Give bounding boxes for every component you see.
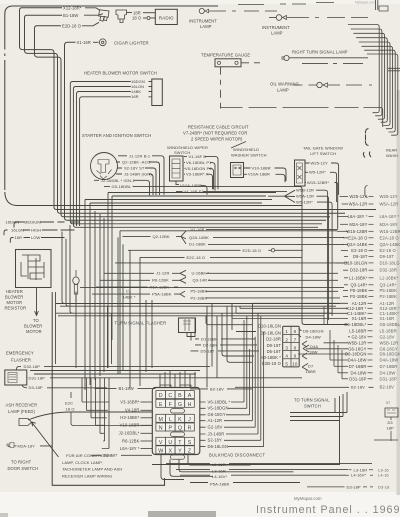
svg-text:B: B [178, 393, 182, 399]
svg-text:R6A-12BK: R6A-12BK [150, 285, 170, 290]
svg-text:U: U [168, 440, 172, 446]
wire instrument lamp 2 dashdot [287, 17, 368, 19]
svg-text:D2-18R: D2-18R [266, 336, 281, 341]
wire feed L6A-18Y * [102, 378, 109, 449]
bulkhead cell A [185, 391, 195, 399]
wire L3-16R [176, 469, 348, 471]
wire grid top 7 [194, 372, 196, 388]
wire X12 lead [85, 8, 100, 11]
wire lead1 P5-18BK [343, 290, 348, 292]
wire lead1 W5A-12R [342, 203, 348, 205]
svg-text:FLASHER: FLASHER [11, 357, 31, 362]
connector plug 1 [99, 10, 109, 21]
wire bd J3-14BR [200, 313, 258, 434]
svg-text:TAIL GATE WINDOW: TAIL GATE WINDOW [303, 146, 343, 151]
svg-text:D4-18W: D4-18W [306, 334, 321, 339]
bulkhead cell Z [185, 446, 195, 454]
svg-text:L4-16V*: L4-16V* [351, 473, 366, 478]
svg-text:LAMP: LAMP [277, 88, 289, 93]
svg-text:Q2A-14BK: Q2A-14BK [347, 242, 368, 247]
svg-text:W5A-12R: W5A-12R [349, 202, 368, 207]
wire E2D lead [82, 22, 99, 26]
svg-text:RESISTOR: RESISTOR [5, 306, 27, 311]
svg-text:W25-12Y: W25-12Y [380, 194, 398, 199]
wire D1 [195, 338, 255, 340]
svg-text:P2-18BK: P2-18BK [191, 295, 208, 300]
wire grid top 2 [169, 370, 171, 388]
wire grid top 0 [159, 374, 161, 388]
svg-text:B2-18V: B2-18V [351, 385, 365, 390]
svg-text:18P: 18P [387, 426, 395, 431]
wire lead1 D9-18T [344, 255, 348, 257]
wire bd G2-18V [200, 337, 255, 427]
wire lead2 D8-18DGN [298, 353, 348, 355]
wire bd D6-18LGN [200, 332, 264, 447]
svg-text:Q3-14R*: Q3-14R* [380, 282, 397, 287]
wire Q2-12BK [116, 162, 160, 195]
svg-text:B2-18V: B2-18V [210, 386, 224, 391]
wire note pointer [231, 142, 246, 149]
svg-text:H: H [188, 402, 192, 408]
wire D32 [17, 367, 211, 371]
svg-text:V4-18R F1: V4-18R F1 [184, 189, 205, 194]
svg-text:BLOWER: BLOWER [24, 323, 42, 328]
svg-text:Q2A-14BK: Q2A-14BK [189, 235, 209, 240]
svg-text:A1-12R: A1-12R [208, 418, 223, 423]
svg-text:W25-12Y: W25-12Y [311, 160, 329, 165]
wire J1 branch [104, 270, 186, 276]
wire 16LGN [73, 87, 318, 228]
wire brace 3 [365, 186, 368, 198]
svg-text:V1-16F B: V1-16F B [189, 154, 207, 159]
wire edge conn [374, 417, 398, 441]
wire X12-18R* [20, 8, 377, 210]
wire oval feed down [75, 292, 77, 369]
wire brace 1 [365, 129, 368, 146]
wire lead1 L1-16BK* [344, 277, 348, 279]
wire P5A branch [92, 291, 185, 297]
wire top right pair [376, 0, 378, 10]
wire dash2 L5-18BR [368, 330, 373, 332]
wire dash M2A-18Y [369, 223, 374, 225]
wire dash2 X12-18R * [368, 307, 373, 309]
wire lead1 L6A-18Y * [337, 216, 348, 218]
svg-text:BLOWER: BLOWER [5, 295, 23, 300]
wire drop mid 4 [231, 304, 233, 331]
svg-text:D4-18W: D4-18W [380, 370, 396, 375]
svg-text:TEMPERATURE GAUGE: TEMPERATURE GAUGE [201, 53, 250, 58]
svg-text:G2-18V: G2-18V [208, 425, 223, 430]
wire to blower motor arrow [35, 288, 39, 316]
wire left drop 3 [70, 225, 73, 313]
wire S2-18Y [117, 168, 156, 195]
wire bus 8 [80, 287, 344, 289]
bulkhead connector grid [152, 388, 200, 455]
emergency flasher inner [8, 373, 17, 383]
wire temp gauge down dashed [220, 67, 222, 109]
wire temp gauge right [241, 62, 260, 64]
wire tts horizontals [290, 413, 347, 421]
svg-text:G2-18V: G2-18V [351, 334, 366, 339]
wire V4-18R to grid [141, 409, 153, 411]
wire lead2 C1-14BK* [236, 312, 348, 314]
svg-text:D10-18LGN: D10-18LGN [258, 324, 281, 329]
svg-text:V5-18DGN: V5-18DGN [208, 406, 229, 411]
wire L4-16V [180, 474, 346, 476]
svg-text:W25-12Y: W25-12Y [349, 194, 367, 199]
wire bd V5-18DGN [200, 316, 247, 408]
wire drop 12 [151, 300, 153, 368]
svg-text:M: M [158, 417, 162, 423]
svg-text:E2A-18 O: E2A-18 O [348, 235, 368, 240]
wire dash2 A1-12R [368, 302, 373, 304]
door jamb connector [7, 443, 14, 448]
wire bus y107 [221, 108, 383, 128]
wire J3-14BR [116, 174, 153, 195]
svg-text:L6A-18Y *: L6A-18Y * [120, 446, 140, 451]
wire bundle stub 2 [375, 114, 382, 116]
svg-text:L6A-18Y *: L6A-18Y * [348, 214, 368, 219]
wire D31 [27, 377, 302, 379]
wire E2D-18 O [35, 26, 331, 217]
wire midband pair [56, 304, 340, 307]
svg-text:14BK: 14BK [131, 89, 141, 94]
wire grid top 1 [164, 372, 166, 388]
wire right bundle 7 [364, 50, 395, 130]
svg-text:V3-16BR*: V3-16BR* [120, 399, 140, 404]
wire conn feed corner [206, 316, 209, 325]
wire E2B feed [227, 306, 252, 362]
wire B3 [235, 386, 374, 388]
connector plug left [73, 270, 79, 302]
svg-text:D4A-18W: D4A-18W [380, 358, 399, 363]
wire tail gate right drops [316, 190, 332, 325]
svg-text:G5-18DBL *: G5-18DBL * [112, 184, 135, 189]
svg-text:V7-24BR* (NOT REQUIRED FOR: V7-24BR* (NOT REQUIRED FOR [183, 131, 247, 136]
wire lead2 L5-18BR [347, 330, 349, 332]
bulkhead cell E [156, 399, 166, 407]
top edge wire mark [316, 2, 334, 4]
bulkhead cell Y [175, 446, 185, 454]
wire drop 11 [145, 300, 147, 372]
wire dash2 X1-16R [368, 318, 373, 320]
svg-text:REAR: REAR [386, 148, 397, 153]
wire bundle stub 1 [373, 111, 380, 113]
svg-text:P5A-18BK: P5A-18BK [210, 481, 230, 486]
wire B1-18W [25, 15, 346, 213]
svg-text:H3-18BK*: H3-18BK* [120, 415, 140, 420]
svg-text:L1-16BK*: L1-16BK* [380, 275, 399, 280]
wire H3 feed [222, 313, 254, 356]
wire bus 3 [85, 199, 272, 201]
wire bd V6-18DBL * [200, 320, 244, 402]
wire B2 low [190, 388, 253, 390]
wire conn feeds [209, 325, 257, 332]
svg-text:RECEIVER LAMP WIRING: RECEIVER LAMP WIRING [62, 474, 112, 479]
svg-text:V3-16BR* A: V3-16BR* A [186, 172, 209, 177]
wire dash2 D4-18W [368, 372, 373, 374]
emergency flasher box [5, 370, 27, 385]
wire 16R low [10, 238, 64, 243]
wire D3 r [307, 486, 373, 488]
svg-text:STARTER AND IGNITION SWITCH: STARTER AND IGNITION SWITCH [82, 133, 151, 138]
svg-text:7: 7 [294, 337, 297, 342]
wire lead2 G5-18DBL* [324, 324, 348, 326]
svg-text:W5B-12R: W5B-12R [348, 340, 367, 345]
wire right bundle 5 [359, 42, 390, 123]
svg-text:D3-18P: D3-18P [347, 484, 361, 489]
wire R6 branch [100, 277, 186, 283]
wire dash W25-12Y [369, 195, 374, 197]
svg-text:MyMopar.com: MyMopar.com [294, 496, 322, 501]
wire conn row 0 [283, 333, 300, 335]
wire bus 6 [120, 230, 337, 232]
wire lead2 X12-18R * [240, 307, 348, 309]
page border wire [5, 6, 218, 190]
svg-text:W15-12BR*: W15-12BR* [307, 180, 329, 185]
svg-text:D8-18DGN: D8-18DGN [345, 352, 367, 357]
wire 16LGN high [4, 230, 75, 235]
svg-text:S2-18Y: S2-18Y [208, 438, 223, 443]
svg-text:R6-12BK: R6-12BK [122, 438, 140, 443]
wire left drop 2 [66, 239, 69, 306]
svg-text:E2D-18 O: E2D-18 O [62, 23, 81, 28]
wire dash Q2A-14BK [369, 244, 374, 246]
svg-text:TO: TO [33, 318, 39, 323]
connector plug 2 [116, 10, 127, 23]
wire 16DGN medium [14, 222, 80, 228]
svg-text:X1-16R: X1-16R [352, 316, 367, 321]
svg-text:D3: D3 [388, 420, 393, 425]
wire drop mid 2 [211, 304, 213, 367]
svg-text:E2B-18 O: E2B-18 O [262, 361, 282, 366]
svg-text:Instrument Panel . . 1969: Instrument Panel . . 1969 B [256, 504, 400, 516]
svg-text:DOOR SWITCH: DOOR SWITCH [8, 466, 39, 471]
wire dash2 G6-18GY [368, 348, 373, 350]
wire right turn dash [302, 62, 368, 64]
wire J1-12R [118, 156, 164, 195]
svg-text:P5-18BK: P5-18BK [350, 288, 368, 293]
svg-text:Q3-14R*: Q3-14R* [351, 282, 368, 287]
bulkhead cell Q [175, 423, 185, 431]
wire bus 5 [16, 205, 302, 207]
wire rect left verts [108, 306, 112, 368]
svg-text:LIFT SWITCH: LIFT SWITCH [310, 151, 336, 156]
svg-text:INSTRUMENT: INSTRUMENT [189, 19, 217, 24]
svg-text:WASH: WASH [386, 153, 398, 158]
wire branch outs 2 [206, 273, 340, 298]
wire L4 r [346, 474, 373, 476]
top border wire dashes [238, 3, 306, 6]
wire bundle stub 3 [378, 117, 385, 119]
svg-text:R: R [188, 426, 192, 432]
wire V3-16BR* to grid [141, 401, 153, 403]
svg-text:RADIO: RADIO [159, 15, 174, 20]
svg-text:P: P [169, 426, 173, 432]
svg-text:Q2-12BK -ACC: Q2-12BK -ACC [122, 160, 151, 165]
svg-text:E2-18 O: E2-18 O [351, 248, 368, 253]
windshield washer switch box [231, 163, 244, 178]
wire lamp2 left [269, 17, 276, 19]
wire 16DGN [70, 82, 322, 224]
svg-text:D5-18T: D5-18T [201, 348, 215, 353]
svg-text:V6-18DBL P1: V6-18DBL P1 [186, 160, 212, 165]
svg-text:J1-12R: J1-12R [156, 271, 170, 276]
svg-text:K: K [178, 417, 182, 423]
svg-text:P5-18BK: P5-18BK [380, 288, 398, 293]
svg-text:HEATER: HEATER [6, 289, 23, 294]
svg-text:MyMopar.com: MyMopar.com [355, 1, 375, 5]
svg-text:D9-18T: D9-18T [353, 254, 368, 259]
wire V10A-18BR [176, 181, 207, 195]
svg-text:P5-18BK: P5-18BK [191, 289, 208, 294]
wire L3 r [349, 469, 374, 471]
wire dash2 D4A-18W [368, 359, 373, 361]
svg-text:D7: D7 [308, 363, 314, 368]
wire right bundle 6 [362, 46, 393, 126]
svg-text:L4-16: L4-16 [378, 473, 389, 478]
terminal circle E2D [271, 249, 274, 252]
svg-text:D7-18BR: D7-18BR [380, 364, 398, 369]
svg-text:E2C-18 O: E2C-18 O [187, 255, 206, 260]
svg-text:L4-16V*: L4-16V* [212, 474, 227, 479]
wire conn mid [290, 326, 292, 367]
svg-text:D4A-18W: D4A-18W [348, 358, 367, 363]
svg-text:P2-18BK: P2-18BK [380, 294, 398, 299]
svg-text:V: V [159, 440, 163, 446]
wire drop 13 [122, 244, 124, 370]
wire bus 1 [108, 192, 276, 194]
svg-text:X1-16R: X1-16R [77, 40, 91, 45]
wire V3-16BR [184, 174, 213, 189]
border bottom corner wire [5, 192, 16, 206]
svg-text:L: L [169, 417, 172, 423]
wire oil warning lamp right [328, 84, 372, 86]
bulkhead cell S [185, 437, 195, 445]
bulkhead cell J [185, 414, 195, 422]
bulkhead cell U [166, 437, 176, 445]
wire G5-18DBL [104, 187, 348, 325]
wire lead1 W25-12Y [340, 195, 348, 197]
wire feed V4-18R [87, 378, 108, 410]
wire feed V10-18BR [96, 378, 106, 425]
svg-text:Q2-12BK: Q2-12BK [153, 234, 170, 239]
temperature gauge box [215, 59, 241, 67]
bulkhead cell W [156, 446, 166, 454]
svg-text:X12-18R*: X12-18R* [63, 5, 82, 10]
wire drop 5 [103, 218, 105, 372]
wire right bundle 4 [356, 38, 387, 120]
wire D2 [195, 344, 257, 346]
svg-text:D32-18P: D32-18P [24, 364, 41, 369]
svg-text:X: X [169, 448, 173, 454]
wire lead1 E2A-18 O [343, 237, 348, 239]
svg-text:18 O: 18 O [66, 407, 75, 412]
wire V10A-18BR [244, 174, 286, 182]
wire grid bottom 2 [170, 459, 213, 476]
wire dash2 C1-14BK* [368, 312, 373, 314]
svg-text:2 SPEED WIPER MOTOR): 2 SPEED WIPER MOTOR) [191, 137, 243, 142]
wire col2 verts a [232, 306, 240, 318]
windshield wiper switch box [170, 156, 184, 181]
svg-text:W15-12BR: W15-12BR [380, 229, 400, 234]
temp gauge terminals [217, 61, 220, 64]
svg-text:FOR AIR CONDITIONER: FOR AIR CONDITIONER [66, 453, 113, 458]
svg-text:E: E [159, 402, 163, 408]
svg-text:D4A: D4A [310, 344, 318, 349]
wire rect bottoms [30, 371, 200, 375]
wire D4A D7 chevrons [302, 345, 309, 371]
svg-text:D9-18T: D9-18T [267, 343, 282, 348]
wire flasher out [187, 319, 195, 341]
wire lead2 D31-18P [342, 378, 348, 380]
svg-text:P2-18BK: P2-18BK [350, 294, 368, 299]
svg-text:J: J [188, 417, 191, 423]
wire right turn signal [289, 57, 368, 59]
svg-text:D32-18R: D32-18R [350, 268, 367, 273]
heater blower switch box [152, 79, 163, 106]
wire conn row 1 [283, 342, 300, 344]
wire grid top 5 [184, 370, 186, 388]
wire lead1 Q2A-14BK [343, 244, 348, 246]
svg-text:SWITCH: SWITCH [304, 404, 321, 409]
turn signal flasher box [179, 318, 196, 333]
radio box [155, 9, 177, 24]
svg-text:BULKHEAD DISCONNECT: BULKHEAD DISCONNECT [209, 452, 265, 457]
svg-text:1: 1 [285, 329, 288, 334]
svg-text:LAMP: LAMP [200, 24, 212, 29]
wire feed R6-12BK [103, 378, 105, 441]
wire col2 vert 3 [231, 306, 233, 319]
svg-text:18W: 18W [309, 349, 318, 354]
svg-text:D2-18R: D2-18R [203, 342, 217, 347]
wire J2-16DBL* to grid [141, 432, 153, 434]
wire lead2 D7-18BR [334, 365, 348, 367]
wire right bundle 3 [353, 33, 384, 117]
svg-text:9: 9 [294, 354, 297, 359]
right edge connector [385, 408, 398, 417]
wire D3 [22, 385, 107, 388]
wire H3-18BK* to grid [141, 417, 153, 419]
wire P5A-18BK [190, 482, 300, 484]
bulkhead key oval 1 [171, 409, 185, 413]
svg-text:D6-18LGN: D6-18LGN [208, 444, 229, 449]
wire brace 2 [363, 152, 371, 158]
wire grid bottom 3 [179, 459, 294, 472]
wire dash D10-18LGN [369, 262, 374, 264]
top right connector [379, 6, 388, 11]
heater blower motor resistor box [16, 250, 52, 288]
svg-text:G: G [178, 402, 182, 408]
wire drop 10 [139, 257, 141, 386]
instrument lamp 2 [276, 15, 282, 21]
wire bd A1-12R [200, 303, 252, 420]
wire lead2 W5B-12R [324, 342, 349, 344]
wire bus 4 [90, 202, 262, 204]
wire dash E2A-18 O [369, 237, 374, 239]
wire right bundle 2 [351, 29, 382, 114]
svg-text:C: C [168, 393, 172, 399]
svg-text:57: 57 [386, 401, 390, 405]
wire dash Q3-14R* [369, 284, 374, 286]
wire bundle stub 6 [386, 127, 393, 129]
wire e2c [71, 392, 152, 426]
wire lead2 G2-18V [348, 336, 350, 338]
svg-text:X1-16R: X1-16R [380, 316, 395, 321]
svg-text:ASH RECEIVER: ASH RECEIVER [6, 403, 38, 408]
wire grid bottom 4 [188, 455, 251, 466]
wire feed H3-18BK* [91, 378, 107, 418]
